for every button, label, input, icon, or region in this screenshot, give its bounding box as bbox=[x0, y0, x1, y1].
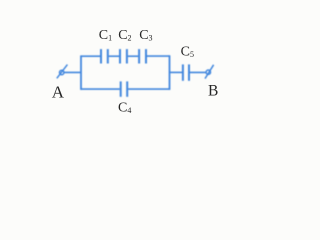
svg-text:B: B bbox=[208, 83, 218, 100]
svg-text:A: A bbox=[52, 83, 65, 102]
